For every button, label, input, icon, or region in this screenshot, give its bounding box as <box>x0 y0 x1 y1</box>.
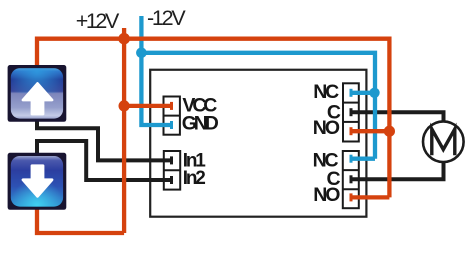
svg-text:NO: NO <box>313 117 340 139</box>
svg-text:NO: NO <box>313 184 340 206</box>
svg-text:NC: NC <box>313 81 339 103</box>
svg-text:GND: GND <box>182 113 219 135</box>
svg-text:-12V: -12V <box>147 6 186 30</box>
svg-text:+12V: +12V <box>76 9 120 33</box>
svg-text:In2: In2 <box>183 168 206 189</box>
